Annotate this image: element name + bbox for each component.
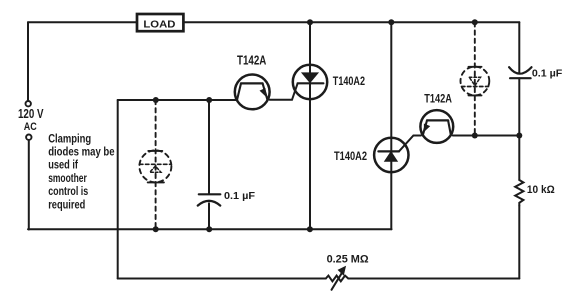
wire: right rail lower [518,206,520,279]
svg-text:LOAD: LOAD [143,19,175,30]
svg-text:0.25 MΩ: 0.25 MΩ [327,254,369,266]
node: dashed-diode-1 bottom junction [153,226,159,232]
svg-text:0.1 µF: 0.1 µF [532,68,562,79]
svg-text:120 V: 120 V [18,106,44,121]
wire: bottom potentiometer bus [118,278,520,280]
node: dashed-diode-2 bottom junction [472,133,478,139]
wire: left AC return [28,140,30,230]
wire: bottom return bus [28,228,392,230]
svg-text:AC: AC [24,121,37,133]
wire: trigger network top rail [118,99,236,101]
switch T140A2 D2 [374,138,408,172]
node: top junction at x=391 [388,19,394,25]
node: dashed-diode-1 top junction [153,97,159,103]
svg-text:required: required [48,197,85,211]
wire: top AC line [28,21,519,23]
node: top junction at x=310 [307,19,313,25]
node: capacitor-1 top junction [206,97,212,103]
svg-text:T140A2: T140A2 [333,76,365,88]
svg-text:diodes may be: diodes may be [48,145,114,159]
wire: second branch vertical [390,22,392,229]
node: right rail junction [516,133,522,139]
svg-text:T140A2: T140A2 [334,149,367,163]
wire: first branch vertical (through T140A2 D1) [309,22,311,229]
svg-text:control is: control is [48,184,88,198]
wire: right rail upper [518,22,520,72]
transistor T142A Q2 [420,110,453,143]
load box LOAD [137,14,183,31]
terminal: 120V AC bottom [26,135,31,140]
capacitor C2 0.1uF [509,67,531,180]
svg-text:T142A: T142A [237,53,267,68]
svg-text:10 kΩ: 10 kΩ [527,184,555,196]
note text: clamping diodes [48,131,114,211]
capacitor C1 0.1uF [198,100,221,229]
wire: trigger network left rail [117,100,119,279]
wire: left AC feed [27,22,29,100]
svg-text:used if: used if [48,158,78,172]
resistor R1 10k [515,180,523,206]
wire: Q1 output to D1 gate [270,83,298,99]
transistor T142A Q1 [235,75,270,110]
potentiometer R2 0.25M [326,267,349,290]
wire: D2 gate to Q2 input [399,136,421,152]
node: capacitor-1 bottom junction [206,226,212,232]
svg-text:0.1 µF: 0.1 µF [224,191,255,202]
node: top junction at x=475 [472,19,478,25]
wire: Q2 output to right rail [453,135,520,137]
diode CR2 (clamping, optional, dashed) [461,22,490,135]
svg-text:Clamping: Clamping [48,131,91,145]
node: bottom junction at x=310 [307,226,313,232]
diode CR1 (clamping, optional, dashed) [139,100,171,229]
terminal: 120V AC top [26,101,31,106]
switch T140A2 D1 [293,65,327,99]
svg-text:T142A: T142A [424,92,452,106]
svg-text:smoother: smoother [48,171,87,185]
